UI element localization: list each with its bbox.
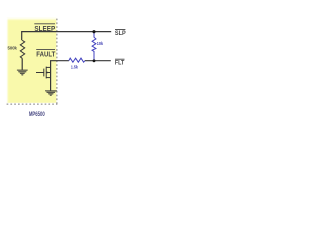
gate lead: [36, 72, 44, 74]
node FLT label: [115, 59, 125, 66]
drain stub: [46, 66, 50, 68]
svg-text:10k: 10k: [97, 41, 104, 47]
gate bar: [43, 69, 45, 77]
ground (below transistor): [45, 91, 57, 96]
source stub: [46, 77, 50, 79]
junction (SLP/10k): [92, 30, 95, 33]
node SLP label: [115, 30, 126, 37]
svg-text:1.5k: 1.5k: [71, 65, 78, 71]
ground (below 500k): [17, 70, 28, 75]
node FAULT label: [36, 49, 56, 58]
resistor R 10k (pull-up, blue): [92, 32, 96, 60]
IC body MP6500 (highlighted yellow region): [7, 18, 57, 103]
background: [0, 0, 130, 130]
channel bar: [45, 67, 47, 79]
IC border bottom (dashed): [7, 103, 58, 105]
node SLEEP label: [34, 24, 55, 33]
svg-text:500k: 500k: [8, 46, 18, 51]
body arrow: [47, 72, 50, 74]
svg-text:SLP: SLP: [115, 31, 126, 37]
wire resistor to ground: [21, 58, 23, 70]
svg-text:MP6500: MP6500: [29, 111, 45, 118]
svg-text:FLT: FLT: [115, 61, 125, 67]
svg-text:FAULT: FAULT: [36, 51, 56, 58]
svg-text:SLEEP: SLEEP: [34, 26, 55, 33]
wire SLEEP net (horizontal to SLP, corner down to R 500k): [22, 32, 112, 41]
IC border right (dashed): [56, 19, 58, 105]
body stub with arrow: [46, 72, 50, 74]
resistor R 500k: [20, 40, 24, 58]
junction (FLT/10k): [93, 59, 96, 62]
wire 1.5k to FLT: [85, 60, 111, 62]
wire FAULT net (horizontal to FLT, corner down through Q to ground): [51, 61, 69, 91]
resistor R 1.5k (series, blue): [69, 58, 85, 62]
transistor Q (open-drain NMOS): [36, 67, 51, 79]
